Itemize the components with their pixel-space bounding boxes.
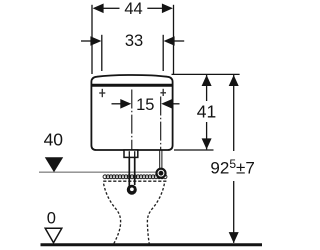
svg-text:41: 41 <box>197 102 216 122</box>
svg-text:40: 40 <box>44 130 64 150</box>
svg-text:33: 33 <box>125 32 143 50</box>
svg-text:0: 0 <box>47 210 56 228</box>
svg-text:15: 15 <box>136 96 154 114</box>
svg-text:925±7: 925±7 <box>210 157 254 177</box>
svg-text:44: 44 <box>124 0 142 18</box>
